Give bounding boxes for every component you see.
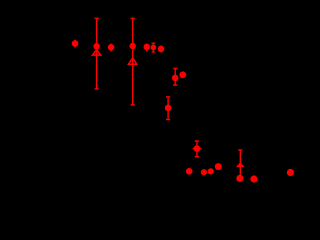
- error bar for point P10 (capped): [166, 96, 170, 120]
- data point P1 circle: [72, 40, 79, 47]
- error bar for point P16 (upper cap only): [238, 149, 242, 178]
- data point P19 circle: [287, 169, 294, 176]
- data point P16 circle: [236, 175, 243, 182]
- open triangle marker T1 (below P2): [93, 50, 101, 55]
- error bar for point P4 (long, capped): [131, 18, 135, 106]
- data point P10 circle: [165, 105, 172, 112]
- data point P14 circle: [201, 169, 207, 175]
- data point P8 circle: [172, 75, 179, 82]
- data point P2 circle: [93, 43, 99, 49]
- data point P18 circle: [250, 175, 257, 182]
- vertical error bar for point P11 (capped): [195, 140, 199, 157]
- data point P3 circle: [108, 44, 115, 51]
- data point P17 circle: [215, 163, 222, 170]
- data point P5 circle: [144, 44, 150, 50]
- error bar for point P8 (capped): [173, 68, 177, 86]
- data point P11 circle: [194, 145, 201, 152]
- data point P4 circle: [130, 43, 136, 49]
- data point P6 circle: [158, 46, 165, 53]
- filled triangle marker T3 (on P16 error bar): [236, 162, 244, 167]
- small error bar for point P5: [146, 44, 147, 52]
- data point P12 circle: [186, 168, 193, 175]
- data point P9 circle: [179, 71, 186, 78]
- data point P13 circle: [151, 45, 157, 51]
- error bar for point P2 (long, capped): [95, 18, 99, 90]
- small error bar for point P1: [74, 40, 75, 48]
- open triangle marker T2 (below P4): [129, 58, 137, 64]
- horizontal error bar for point P11: [193, 148, 202, 149]
- data point P15 circle: [208, 168, 214, 174]
- error bar for point P13 (small, capped): [152, 43, 156, 53]
- small error bar for point P6: [160, 46, 161, 53]
- small error bar for point P3: [110, 44, 111, 52]
